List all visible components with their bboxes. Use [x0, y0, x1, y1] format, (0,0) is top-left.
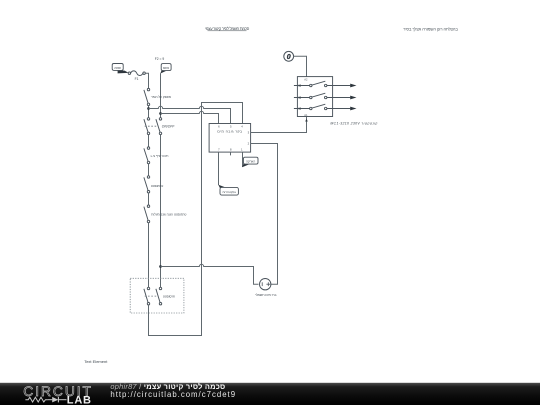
wire neutral onoff down [160, 135, 162, 288]
pressostat dashed enclosure [130, 278, 184, 313]
svg-text:סכמת חשמל לסיר קיטור עצמי: סכמת חשמל לסיר קיטור עצמי [205, 26, 250, 31]
svg-text:http://circuitlab.com/c7cdet9: http://circuitlab.com/c7cdet9 [110, 390, 236, 399]
wire neutral down [160, 73, 162, 117]
wire phase branch to pin5 (hops) [149, 106, 231, 123]
svg-text:מפסק על הסיר: מפסק על הסיר [151, 95, 171, 99]
svg-text:הארקה: הארקה [246, 159, 255, 163]
node flag PHASE [112, 64, 128, 74]
svg-text:טרמוסטט הגנה 236 מעלות: טרמוסטט הגנה 236 מעלות [151, 212, 186, 216]
switch SW1 (pot switch) [144, 88, 150, 105]
wire sw4 to sw5 [148, 193, 150, 205]
circuitlab logo [23, 384, 93, 405]
wire sw5 to pressostat [148, 223, 150, 288]
pin numbers [218, 124, 250, 151]
water level controller box [209, 124, 251, 153]
node junction neutral-valve [159, 265, 162, 268]
contactor contact row 1 [294, 81, 350, 87]
svg-text:MC1-3210 230V קונטקטור: MC1-3210 230V קונטקטור [330, 121, 377, 125]
node flag ground [242, 157, 258, 167]
pin8 stub [230, 152, 232, 155]
valve source V1 [260, 279, 271, 290]
svg-text:F2 = 9: F2 = 9 [155, 57, 165, 61]
switch ON/OFF DPST pole B [156, 118, 162, 135]
svg-text:A1: A1 [304, 113, 308, 117]
coil arrow [305, 119, 308, 122]
pressostat pole A [144, 287, 150, 305]
svg-text:Text Element: Text Element [84, 359, 108, 364]
footer text [110, 382, 236, 399]
switch SW4 thermostat [144, 176, 150, 193]
contactor MC1 box [297, 77, 332, 117]
svg-text:פרסוסטט: פרסוסטט [163, 295, 175, 299]
svg-text:ON/OFF: ON/OFF [162, 125, 176, 129]
node junction neutral [159, 112, 162, 115]
wire valve branch (hop over riser) [161, 264, 259, 284]
pressostat pole B [156, 287, 162, 305]
wire phase bottom loop to pin4 [149, 103, 243, 336]
switch ON/OFF DPST pole A [144, 118, 150, 135]
pin1 wire to ground flag [242, 152, 244, 167]
gang dashed link [145, 295, 159, 297]
svg-text:בהצלחה רונן השמורה אצלך בסיר: בהצלחה רונן השמורה אצלך בסיר [403, 27, 458, 32]
wire sw3 to sw4 [148, 164, 150, 176]
svg-text:A2: A2 [304, 78, 308, 82]
meter 0 circle [284, 51, 294, 61]
wire neutral branch to pin6 (hop) [161, 111, 219, 123]
switch SW5 protection thermostat [144, 205, 150, 223]
svg-text:אלקטרודות: אלקטרודות [222, 190, 236, 194]
svg-text:טרמוסטט: טרמוסטט [151, 184, 164, 188]
node junction phase [147, 107, 150, 110]
contactor contact row 3 [294, 104, 350, 110]
svg-text:בקר גובה מים: בקר גובה מים [217, 130, 242, 134]
pin7 wire to electrodes [218, 152, 220, 185]
svg-text:LAB: LAB [67, 395, 92, 405]
svg-text:L.S חיבור ציף: L.S חיבור ציף [151, 154, 169, 158]
node flag electrodes [218, 185, 238, 195]
svg-text:0: 0 [287, 54, 291, 61]
contactor contact row 2 [294, 93, 350, 99]
fuse F1 [128, 71, 145, 76]
wire onoff to sw3 [148, 135, 150, 147]
pin3 wire to contactor coil [251, 117, 307, 133]
svg-text:פאזה: פאזה [114, 66, 121, 70]
svg-text:ברז מים חשמלי: ברז מים חשמלי [255, 293, 276, 297]
wire fuse to switch1 [145, 73, 148, 88]
svg-text:אפס: אפס [163, 66, 169, 70]
wire sw1 to onoff [148, 106, 150, 118]
pin2 wire to valve [251, 144, 278, 285]
switch SW3 L.S [144, 147, 150, 164]
title [205, 26, 250, 31]
wire meter to contactor A2 [294, 56, 307, 76]
gang dashed link [145, 125, 159, 127]
svg-text:F1: F1 [135, 77, 139, 81]
